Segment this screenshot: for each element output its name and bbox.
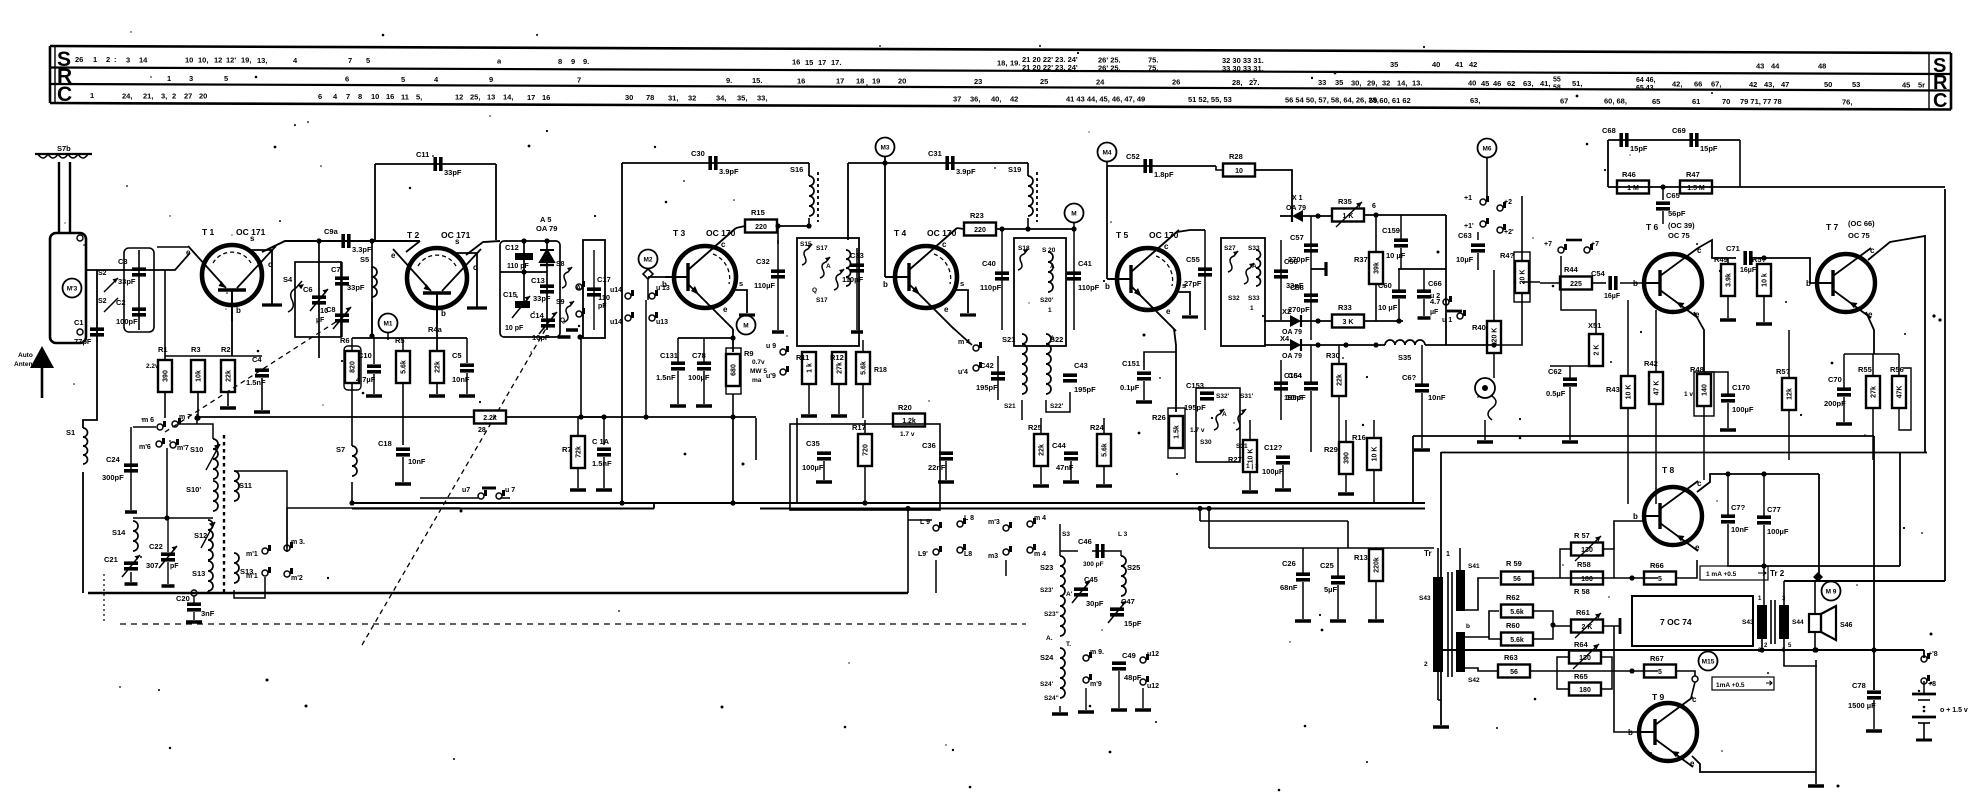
svg-text:s: s (455, 237, 460, 246)
svg-text:+8: +8 (1928, 681, 1936, 688)
svg-text:12': 12' (226, 56, 236, 65)
wire c25 bot (1337, 585, 1339, 619)
node nM3 (882, 160, 887, 165)
wire c45 stem (1001, 229, 1003, 330)
capacitor C60 (1378, 281, 1406, 312)
wire T1c to C9a (262, 241, 420, 252)
svg-text:6: 6 (1372, 203, 1376, 210)
terminal u14a (610, 287, 634, 299)
svg-text:C58: C58 (1290, 283, 1304, 292)
ground R27 (1242, 490, 1258, 494)
ground C4 (254, 410, 270, 414)
svg-text:60, 68,: 60, 68, (1604, 97, 1627, 106)
variable capacitor C14 (530, 311, 557, 342)
node nrail417a (643, 414, 648, 419)
svg-text:C131: C131 (660, 351, 678, 360)
wire X1 wire (1280, 215, 1291, 217)
svg-text:S35: S35 (1398, 353, 1411, 362)
svg-text:m'2: m'2 (291, 575, 303, 582)
trimmer S27 (1228, 251, 1238, 272)
wire left drop T3 (621, 163, 623, 503)
svg-text:5,: 5, (416, 92, 422, 101)
wire c22 lead2 (167, 562, 169, 584)
wire c170 bot (1727, 403, 1729, 428)
svg-text:33pF: 33pF (347, 283, 365, 292)
svg-text:35: 35 (1390, 60, 1398, 69)
node n6 (1373, 212, 1378, 217)
svg-text:e: e (391, 251, 396, 260)
resistor R44 (1560, 265, 1592, 290)
wire r40 top (1493, 270, 1495, 321)
svg-text:R23: R23 (970, 211, 984, 220)
svg-text:u 9: u 9 (766, 343, 776, 350)
inductor S23 (1040, 556, 1065, 636)
capacitor C154 (1274, 371, 1306, 402)
box around C12 C13 C14 (500, 241, 560, 337)
svg-text:e: e (1166, 307, 1171, 316)
diode X4 (1280, 334, 1301, 351)
svg-text:R30: R30 (1326, 351, 1340, 360)
wire speaker rail (1784, 580, 1945, 582)
svg-text:T.: T. (1066, 641, 1071, 648)
terminal m9b (1083, 674, 1102, 688)
diode X2 (1282, 307, 1301, 327)
ground C35 (816, 480, 832, 484)
svg-text:R29: R29 (1324, 445, 1338, 454)
wire r43 bot (1627, 408, 1629, 504)
node n1 (195, 415, 200, 420)
svg-text:19,: 19, (241, 56, 251, 65)
wire s2122 bot (1021, 400, 1023, 420)
trimmer S17b (834, 269, 844, 290)
capacitor C49 (1112, 651, 1142, 682)
svg-text:10k: 10k (196, 370, 203, 382)
svg-text:(OC 66): (OC 66) (1848, 219, 1875, 228)
capacitor C159 (1382, 226, 1408, 260)
capacitor C20 (176, 594, 215, 618)
terminal p7b (1584, 241, 1599, 253)
wire S19 down (1027, 218, 1029, 229)
svg-text:C30: C30 (691, 149, 705, 158)
svg-text:61: 61 (1692, 97, 1700, 106)
svg-text:47 K: 47 K (1654, 381, 1661, 396)
ground C70 (1836, 422, 1852, 426)
capacitor C41 (1067, 259, 1100, 292)
svg-text:R 59: R 59 (1506, 559, 1522, 568)
terminal m6 (142, 417, 166, 430)
wire bat wire (1908, 649, 1924, 651)
capacitor C52 (1126, 152, 1174, 179)
wire t8 c v (1818, 474, 1820, 577)
svg-text:100µF: 100µF (802, 463, 824, 472)
node nbusB2 (1197, 506, 1202, 511)
inductor S24 (1040, 648, 1065, 698)
svg-text:18,: 18, (997, 59, 1007, 68)
capacitor C64 (1286, 371, 1318, 402)
capacitor C46 (1078, 537, 1103, 558)
transformer Tr2 (1742, 596, 1804, 654)
wire ain row (1209, 547, 1434, 549)
svg-text:A: A (826, 263, 831, 270)
svg-text:L9': L9' (918, 551, 928, 558)
wire bias row 2 (352, 337, 467, 339)
svg-text:s: s (250, 234, 255, 243)
svg-text:m 3.: m 3. (291, 539, 305, 546)
svg-text:OC 170: OC 170 (1149, 230, 1179, 240)
svg-text:R1: R1 (158, 345, 168, 354)
wire S16 down (808, 218, 810, 226)
svg-text:15pF: 15pF (1700, 144, 1718, 153)
capacitor C71 (1726, 244, 1751, 265)
svg-text:S14: S14 (112, 528, 126, 537)
svg-text:18: 18 (856, 77, 864, 86)
svg-text:m 4: m 4 (958, 339, 970, 346)
svg-text:10 K: 10 K (1372, 447, 1379, 462)
svg-text:S9: S9 (556, 299, 565, 306)
wire bat col (1923, 650, 1925, 658)
wire audio top border (1413, 435, 1874, 437)
wire c151 bot (1143, 381, 1145, 400)
wire audio top border2 (1441, 452, 1927, 454)
svg-text:R13: R13 (1354, 553, 1368, 562)
ground C20 (186, 620, 202, 624)
wire c62 bot (1569, 387, 1571, 440)
node nx1 (1315, 213, 1320, 218)
wire c32 stub (777, 226, 779, 244)
node ncl2 (544, 238, 549, 243)
svg-text:u'9: u'9 (766, 373, 776, 380)
wire clu row (500, 271, 547, 273)
wire T7 e down (1866, 312, 1874, 354)
label C46 pF (1083, 561, 1104, 568)
svg-text:1 v: 1 v (1684, 391, 1693, 398)
transistor T5 OC170 (1105, 230, 1198, 331)
capacitor C31 (928, 149, 976, 176)
ground C5 (459, 394, 475, 398)
wire m9 bot (1085, 688, 1087, 710)
IF can T3 (797, 238, 859, 346)
wire C5 top (466, 338, 468, 363)
wire s41 top (1459, 548, 1461, 570)
svg-text:C6?: C6? (1402, 373, 1417, 382)
labels S3 L3 (1062, 531, 1128, 538)
svg-text:19.: 19. (1010, 59, 1020, 68)
wire row269 (1398, 268, 1446, 270)
svg-text:12: 12 (214, 56, 222, 65)
svg-text:25: 25 (1040, 77, 1048, 86)
svg-text:Tr: Tr (1424, 549, 1432, 558)
wire tr1 bot2 (1438, 699, 1441, 701)
wire r59 out (1533, 577, 1658, 579)
node nosc (194, 415, 199, 420)
svg-text:C66: C66 (1428, 279, 1442, 288)
svg-text:26' 25.: 26' 25. (1098, 63, 1121, 72)
wire l9 link (908, 519, 932, 521)
svg-text:S16: S16 (790, 165, 803, 174)
ground R11 (801, 414, 817, 418)
svg-text:55: 55 (1553, 77, 1561, 84)
resistor R23 (964, 211, 996, 236)
node nr33 (1396, 318, 1401, 323)
svg-text:5.6k: 5.6k (1102, 443, 1109, 457)
wire c71 out (1754, 258, 1815, 283)
IF can S30 (1196, 388, 1240, 462)
svg-text:OC 170: OC 170 (927, 228, 957, 238)
svg-text:1.5nF: 1.5nF (246, 378, 266, 387)
ground R50 (1756, 322, 1772, 326)
svg-text:C 1A: C 1A (592, 437, 610, 446)
antenna telescopic whip S7b (35, 144, 92, 343)
resistor R26 (1152, 413, 1183, 448)
terminal p7a (1544, 241, 1567, 253)
svg-text:C9a: C9a (324, 227, 339, 236)
box 7 OC 74 (1632, 596, 1753, 646)
svg-text:15pF: 15pF (1630, 144, 1648, 153)
resistor R63 (1498, 653, 1530, 678)
wire fb top (1608, 139, 1740, 141)
svg-text:8: 8 (358, 92, 362, 101)
variable capacitor C21 (104, 555, 140, 577)
svg-text:Auto: Auto (18, 352, 33, 359)
svg-text:1.7 v: 1.7 v (900, 431, 915, 438)
wire C18 bot (402, 457, 404, 482)
svg-text:C2: C2 (116, 298, 126, 307)
terminal sw1 (576, 281, 585, 290)
svg-text:R61: R61 (1576, 608, 1590, 617)
svg-text:C71: C71 (1726, 244, 1740, 253)
ground C67 (1414, 448, 1430, 452)
wire c77 top (1763, 474, 1765, 516)
node nx2 (1315, 318, 1320, 323)
inductor S20 (1048, 252, 1053, 292)
svg-text:10pF: 10pF (532, 333, 550, 342)
svg-text:4.7µF: 4.7µF (356, 375, 376, 384)
wire pot to vol (1494, 320, 1522, 345)
wire c11a bot (603, 457, 605, 488)
svg-text:33,: 33, (757, 94, 767, 103)
wire dashed gang rail (120, 623, 1026, 625)
svg-text:2: 2 (172, 91, 176, 100)
svg-text:b: b (883, 280, 888, 289)
node nc79t (1725, 471, 1730, 476)
svg-text:300pF: 300pF (102, 473, 124, 482)
r61 wiper bar (1619, 618, 1622, 634)
svg-text:43: 43 (1756, 61, 1764, 70)
svg-text:270pF: 270pF (1288, 305, 1310, 314)
terminal m'1 (246, 567, 271, 580)
wire spk return v (1815, 660, 1817, 772)
resistor R7 (562, 436, 585, 468)
wire s21 stem (997, 356, 999, 400)
wire r42 bot (1655, 404, 1657, 504)
capacitor C44 (1052, 441, 1078, 472)
wire C36 bot (945, 461, 947, 480)
svg-text:C20: C20 (176, 594, 190, 603)
svg-text:56 54 50, 57, 58, 64, 26, 25,: 56 54 50, 57, 58, 64, 26, 25, (1285, 96, 1379, 105)
wire right border (1944, 189, 1946, 581)
capacitor C5 (452, 351, 474, 384)
IF can T4 (1014, 238, 1066, 346)
wire bus B left (352, 508, 654, 510)
ground C18 (395, 482, 411, 486)
wire r7 bot (577, 468, 579, 488)
wire c70 top (1843, 354, 1845, 388)
svg-text:1.8pF: 1.8pF (1154, 170, 1174, 179)
svg-text:307: 307 (146, 561, 159, 570)
wire R9 col ext (732, 418, 734, 503)
svg-text:14: 14 (139, 55, 148, 64)
svg-text:R9: R9 (744, 349, 754, 358)
wire c66 bot (1423, 299, 1425, 316)
svg-text:31,: 31, (668, 93, 678, 102)
wire c24 lead (130, 427, 132, 510)
wire T6 e down (1694, 312, 1704, 372)
ground C78 (696, 404, 712, 408)
labels Tr2 pins bottom (1764, 643, 1792, 649)
svg-text:e: e (1690, 759, 1695, 768)
wire T4 e out (952, 327, 972, 345)
wire c79 bot (1727, 524, 1729, 566)
ground C170 (1720, 428, 1736, 432)
wire R15 to node (777, 225, 809, 227)
resistor R57 (1571, 531, 1603, 561)
wire r41 bot (1521, 293, 1523, 320)
terminal p2 (1497, 199, 1512, 211)
capacitor C45 (980, 259, 1009, 292)
wire r57 loop (1560, 549, 1571, 578)
svg-text:41,: 41, (1540, 79, 1550, 88)
wire R23 to node (996, 228, 1028, 230)
label T8 (1662, 465, 1675, 475)
trimmer S15 (802, 244, 812, 265)
resistor R40 (1472, 321, 1501, 353)
svg-text:R64: R64 (1574, 640, 1589, 649)
svg-text:75.: 75. (1148, 64, 1158, 73)
terminal u7b (496, 487, 515, 499)
wire c60 bot (1398, 299, 1400, 321)
wire R24 bot (1103, 466, 1105, 484)
svg-text:A: A (1050, 335, 1055, 342)
terminal p1 (1464, 195, 1489, 205)
wire osc top (133, 426, 156, 428)
node nr61 (1550, 622, 1555, 627)
variable capacitor C47 (1108, 597, 1142, 628)
contact bar u (1447, 310, 1462, 313)
wire v375 (374, 164, 376, 241)
inductor S7 (336, 445, 357, 476)
resistor R66 (1644, 561, 1676, 585)
svg-text:R37: R37 (1354, 255, 1368, 264)
node nclb (577, 334, 582, 339)
svg-text:C49: C49 (1122, 651, 1136, 660)
svg-text:R24: R24 (1090, 423, 1105, 432)
svg-text:R55: R55 (1858, 365, 1872, 374)
svg-text:C78: C78 (1852, 681, 1866, 690)
svg-text:35: 35 (1335, 78, 1343, 87)
svg-text:R4a: R4a (428, 325, 443, 334)
meter point M9 (1822, 582, 1841, 601)
capacitor C1 (74, 318, 104, 346)
svg-text:5.6k: 5.6k (1510, 637, 1524, 644)
svg-text:S2: S2 (98, 270, 107, 277)
svg-text:m3: m3 (988, 553, 998, 560)
svg-text:7: 7 (577, 75, 581, 84)
svg-text:C31: C31 (928, 149, 942, 158)
inductor S13r (234, 553, 253, 583)
svg-text:L 8: L 8 (964, 515, 974, 522)
wire v1900 (1899, 453, 1901, 566)
shield box around C3 C2 (124, 248, 154, 332)
inductor S13l (192, 561, 213, 591)
wire R24 top (1103, 418, 1105, 434)
svg-text:10: 10 (371, 92, 379, 101)
wire T3 e down (732, 329, 734, 352)
wire r65 loop (1557, 671, 1569, 689)
wire T5 e down (1174, 329, 1176, 412)
wire s41 tap (1465, 578, 1499, 610)
wire R5 top (402, 338, 404, 351)
terminal m3o (284, 539, 305, 551)
wire c26 bot (1302, 582, 1304, 619)
svg-text:C5: C5 (452, 351, 462, 360)
svg-text:41 43 44, 45, 46, 47, 49: 41 43 44, 45, 46, 47, 49 (1066, 95, 1145, 104)
wire r49 bot (1727, 296, 1729, 318)
svg-text:S10': S10' (186, 485, 201, 494)
svg-text:C17: C17 (597, 275, 611, 284)
svg-text:22nF: 22nF (928, 463, 946, 472)
label Tr2 (1770, 569, 1785, 578)
svg-text:M15: M15 (1702, 659, 1715, 666)
svg-text:16: 16 (792, 58, 800, 67)
wire c57 stem (1310, 216, 1312, 340)
node nb1 (1871, 647, 1876, 652)
svg-text:C151: C151 (1122, 359, 1140, 368)
inductor S35 (1385, 340, 1425, 362)
svg-text:680: 680 (731, 364, 738, 376)
capacitor C18 (378, 439, 426, 466)
wire m3 wire (1005, 560, 1007, 576)
svg-text:27k: 27k (1871, 386, 1878, 398)
wire c22 lead (167, 518, 169, 552)
wire R1 bot (164, 392, 166, 418)
svg-text:R11: R11 (796, 353, 809, 362)
wire c55 stem (1204, 230, 1206, 330)
ground switch cluster (558, 335, 571, 339)
wire r40 bot (1493, 353, 1495, 378)
wire bus top B (760, 508, 1425, 510)
svg-text:m'1: m'1 (246, 573, 258, 580)
wire C10 bot (373, 374, 375, 394)
svg-text:C52: C52 (1126, 152, 1140, 161)
svg-text:OC 170: OC 170 (706, 228, 736, 238)
svg-text:Tr 2: Tr 2 (1770, 569, 1785, 578)
node npot (1491, 342, 1496, 347)
svg-text:OC 75: OC 75 (1848, 231, 1870, 240)
wire c78 stem (703, 338, 705, 362)
svg-text:6: 6 (318, 92, 322, 101)
wire dashed gang diag 2 (165, 316, 345, 432)
svg-text:S 20: S 20 (1042, 247, 1056, 254)
svg-text:C12?: C12? (1264, 443, 1283, 452)
svg-text:29,: 29, (1367, 78, 1377, 87)
wire r42 top (1655, 310, 1657, 372)
node nc77b (1761, 563, 1766, 568)
wire C11 top (375, 163, 496, 165)
svg-text:17: 17 (818, 58, 826, 67)
jack contact M2 (643, 269, 653, 279)
resistor R48 (1690, 365, 1711, 406)
box around C6 C7 C8 (295, 262, 341, 337)
